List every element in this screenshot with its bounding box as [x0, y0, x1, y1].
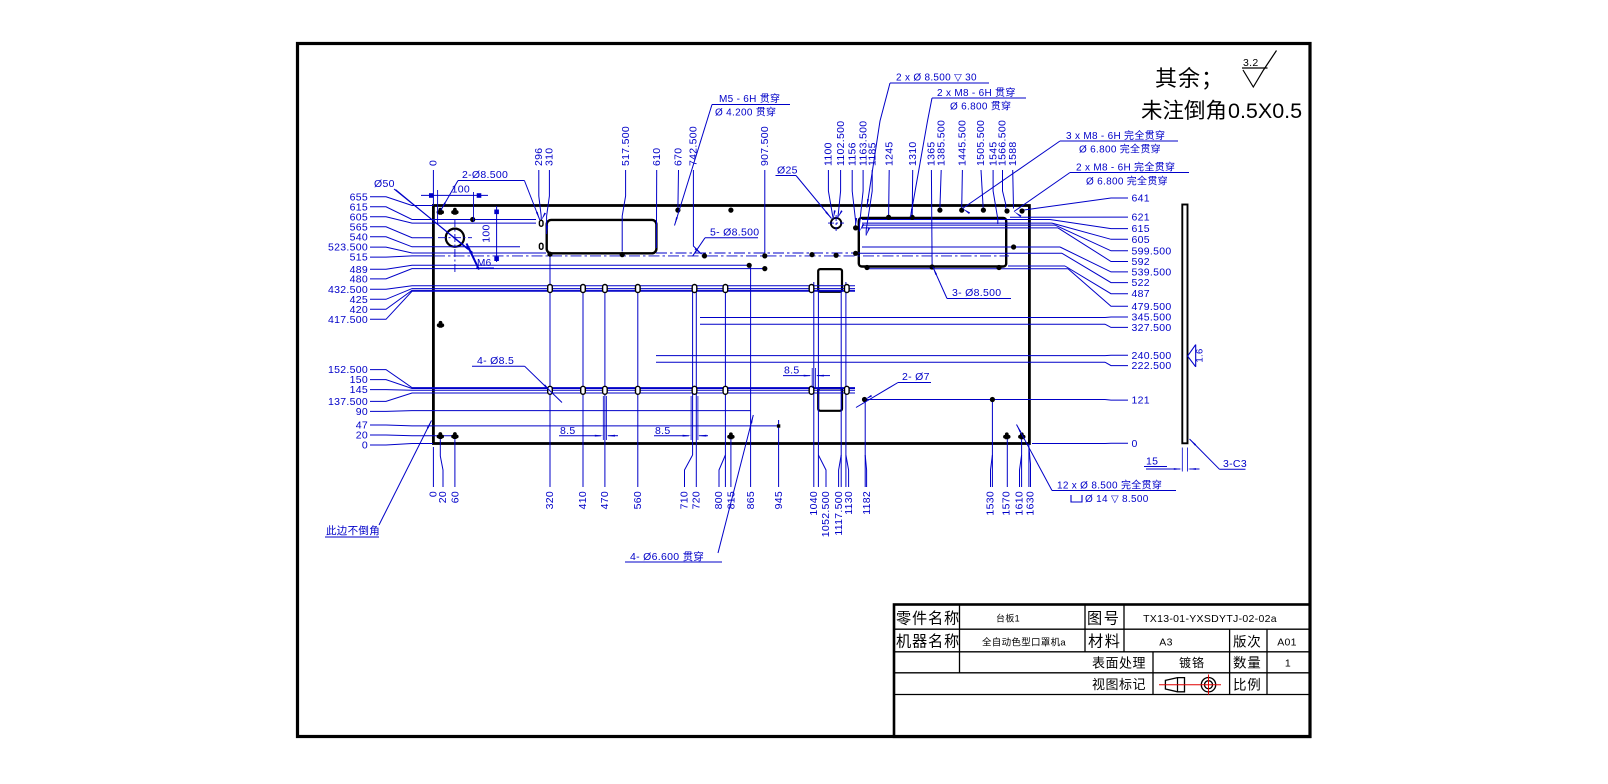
- svg-text:0.5X0.5: 0.5X0.5: [1228, 99, 1302, 123]
- left label 145: [350, 384, 433, 396]
- column x1117.5: [840, 292, 842, 487]
- right label 327.500: [1105, 322, 1172, 334]
- cutout right rounded rect: [859, 218, 1006, 267]
- row 137.5: [433, 392, 855, 394]
- left label 20: [356, 430, 433, 442]
- top label 310: [544, 148, 556, 234]
- svg-text:517.500: 517.500: [620, 126, 632, 166]
- svg-text:1102.500: 1102.500: [835, 121, 847, 166]
- svg-text:5- Ø8.500: 5- Ø8.500: [710, 227, 759, 239]
- centerline D25 cross: [828, 215, 844, 231]
- right label 479.500: [1068, 269, 1172, 313]
- dimension 15 side view: [1144, 448, 1200, 472]
- top label 296: [533, 148, 546, 221]
- left label 615: [350, 201, 433, 219]
- tapped holes (club marks): [437, 208, 1026, 439]
- svg-text:数量: 数量: [1233, 656, 1262, 671]
- top label 1102.500: [835, 121, 847, 218]
- svg-text:零件名称: 零件名称: [896, 611, 960, 628]
- column x1040: [813, 282, 815, 487]
- note 2-D8.500 leader2: [524, 181, 539, 221]
- bottom label 470: [599, 491, 611, 509]
- svg-text:4- Ø8.5: 4- Ø8.5: [477, 355, 514, 367]
- bottom label 0: [428, 447, 440, 497]
- row 345.5: [700, 317, 1105, 319]
- plate outline: [433, 206, 1029, 444]
- cutout left rounded rect: [547, 220, 657, 253]
- bottom label 865: [745, 491, 757, 509]
- row 240.5: [656, 355, 1105, 357]
- note 5-D8.500: [693, 227, 760, 257]
- outer border frame: [298, 44, 1311, 737]
- svg-text:605: 605: [1132, 234, 1150, 246]
- bottom label 720: [691, 491, 703, 509]
- title label 比例: [1233, 678, 1262, 693]
- bottom label 560: [632, 491, 644, 509]
- note M5 tap: [675, 92, 791, 226]
- svg-text:3 x M8 - 6H 完全贯穿: 3 x M8 - 6H 完全贯穿: [1066, 129, 1165, 142]
- surface finish symbol 3.2: [1242, 51, 1277, 88]
- svg-text:20: 20: [437, 491, 449, 503]
- top label 1505.500: [975, 120, 987, 209]
- svg-text:1: 1: [1285, 658, 1291, 670]
- top label 742.500: [688, 126, 702, 254]
- svg-text:版次: 版次: [1233, 635, 1262, 650]
- svg-text:1445.500: 1445.500: [957, 120, 969, 166]
- bottom label 710: [679, 455, 693, 509]
- right label 240.500: [1105, 350, 1172, 362]
- column x1630: [1028, 444, 1030, 488]
- column x800: [724, 286, 726, 487]
- hole circle D25: [831, 218, 841, 228]
- side view plate section: [1182, 205, 1187, 444]
- title label 数量: [1233, 656, 1262, 671]
- hole center dots: [470, 208, 1025, 403]
- top label 1545: [987, 141, 999, 224]
- left label 417.500: [328, 291, 433, 326]
- column x865: [750, 265, 752, 487]
- left label 152.500: [328, 364, 433, 388]
- column x410: [582, 286, 584, 487]
- dimension 100 vertical: [481, 206, 499, 262]
- svg-text:1.6: 1.6: [1195, 348, 1206, 362]
- svg-text:材料: 材料: [1088, 634, 1121, 651]
- row 121: [864, 399, 1105, 401]
- right label 641: [1024, 193, 1150, 211]
- bottom label 1182: [861, 455, 873, 515]
- left label 425: [350, 289, 433, 306]
- note 2-D7: [856, 371, 931, 408]
- row 417.5: [433, 290, 855, 292]
- svg-text:1310: 1310: [907, 141, 919, 166]
- right label 0: [1105, 438, 1138, 450]
- svg-text:未注倒角: 未注倒角: [1141, 99, 1227, 123]
- top label 610: [651, 148, 663, 248]
- note 2-D8.500: [441, 169, 525, 210]
- left label 489: [350, 264, 433, 276]
- svg-text:121: 121: [1132, 395, 1150, 407]
- note 其余: [1155, 66, 1224, 91]
- svg-text:Ø 6.800 贯穿: Ø 6.800 贯穿: [950, 100, 1011, 113]
- svg-text:8.5: 8.5: [655, 425, 671, 437]
- note 4-D8.5: [472, 355, 562, 403]
- dimension 8.5 slot x1040: [783, 365, 830, 388]
- note 12x D8.500: [1017, 425, 1177, 506]
- svg-text:3- Ø8.500: 3- Ø8.500: [952, 287, 1001, 299]
- left label 47: [356, 420, 433, 432]
- bottom label 60: [449, 439, 461, 503]
- dimension 100 horizontal: [421, 184, 488, 224]
- svg-text:90: 90: [356, 406, 368, 418]
- row 20: [433, 435, 458, 437]
- svg-text:145: 145: [350, 384, 368, 396]
- svg-text:Ø25: Ø25: [777, 165, 798, 177]
- svg-text:0: 0: [362, 440, 368, 452]
- svg-text:0: 0: [428, 160, 440, 166]
- top label 1310: [907, 141, 919, 216]
- svg-text:320: 320: [544, 491, 556, 509]
- svg-text:1100: 1100: [823, 142, 835, 166]
- right label 621: [1010, 212, 1150, 224]
- svg-text:720: 720: [691, 491, 703, 509]
- svg-text:镀铬: 镀铬: [1179, 655, 1205, 670]
- column x1182: [864, 400, 866, 488]
- svg-text:1040: 1040: [808, 491, 820, 516]
- title label 图号: [1087, 611, 1120, 628]
- dimension 8.5 slot x710: [654, 396, 708, 440]
- left label 150: [350, 374, 433, 388]
- svg-text:12 x Ø 8.500 完全贯穿: 12 x Ø 8.500 完全贯穿: [1057, 479, 1162, 492]
- row 432.5: [433, 285, 855, 287]
- svg-text:410: 410: [577, 491, 589, 509]
- top label 1156: [846, 142, 858, 226]
- left label 655: [350, 191, 433, 205]
- svg-text:台板1: 台板1: [996, 613, 1020, 624]
- svg-text:710: 710: [679, 491, 691, 509]
- svg-text:641: 641: [1132, 193, 1150, 205]
- note 3-C3: [1190, 439, 1247, 470]
- right label 121: [1105, 395, 1150, 407]
- top label 517.500: [620, 126, 632, 252]
- row 480: [433, 268, 765, 270]
- left label 540: [350, 231, 433, 247]
- svg-text:621: 621: [1132, 212, 1150, 224]
- note 4-D6.600: [625, 415, 753, 563]
- svg-text:1182: 1182: [861, 491, 873, 515]
- row 420: [433, 289, 855, 291]
- note 2xM8 full: [1014, 161, 1189, 218]
- title value A3: [1159, 637, 1172, 649]
- row 605: [433, 222, 1052, 224]
- bottom label 1630: [1025, 447, 1037, 516]
- bottom label 1040: [808, 491, 820, 516]
- note D50: [374, 178, 473, 252]
- column x1052.5: [817, 292, 819, 487]
- svg-text:515: 515: [350, 252, 368, 264]
- top label 670: [673, 148, 685, 209]
- svg-text:2 x M8 - 6H 贯穿: 2 x M8 - 6H 贯穿: [937, 86, 1016, 99]
- title value TX13-01-YXSDYTJ-02-02a: [1143, 613, 1277, 625]
- bottom label 1610: [1014, 455, 1026, 516]
- column x1570: [1006, 438, 1008, 487]
- left label 432.500: [328, 284, 433, 296]
- left label 565: [350, 221, 433, 237]
- svg-text:视图标记: 视图标记: [1092, 677, 1146, 692]
- right label 345.500: [1105, 312, 1172, 324]
- note 2xM8 through: [911, 86, 1027, 217]
- svg-text:8.5: 8.5: [784, 365, 800, 377]
- svg-text:327.500: 327.500: [1132, 322, 1172, 334]
- svg-text:470: 470: [599, 491, 611, 509]
- top label 0: [428, 160, 440, 206]
- right label 522: [1062, 253, 1150, 289]
- svg-text:其余；: 其余；: [1155, 66, 1224, 91]
- svg-text:Ø 6.800 完全贯穿: Ø 6.800 完全贯穿: [1086, 175, 1168, 188]
- column x945: [778, 420, 780, 487]
- right label 605: [1052, 223, 1150, 246]
- row 150: [433, 388, 855, 390]
- svg-text:800: 800: [713, 491, 725, 509]
- svg-text:0: 0: [1132, 438, 1138, 450]
- column x720: [695, 286, 697, 487]
- cutout small rect lower: [818, 388, 842, 411]
- svg-text:A3: A3: [1159, 637, 1172, 649]
- view mark target symbol: [1201, 678, 1215, 692]
- svg-text:全自动色型口罩机a: 全自动色型口罩机a: [982, 637, 1066, 649]
- left label 515: [350, 252, 433, 264]
- svg-text:Ø 6.800 完全贯穿: Ø 6.800 完全贯穿: [1079, 143, 1161, 156]
- title value 镀铬: [1179, 655, 1205, 670]
- column x1530: [991, 400, 993, 488]
- svg-text:2 x Ø 8.500 ▽ 30: 2 x Ø 8.500 ▽ 30: [896, 73, 977, 84]
- left label 420: [350, 290, 433, 315]
- svg-text:310: 310: [544, 148, 556, 166]
- column x560: [637, 286, 639, 487]
- right label 539.500: [1060, 247, 1172, 278]
- svg-text:1052.500: 1052.500: [820, 491, 832, 537]
- svg-text:1588: 1588: [1007, 141, 1019, 166]
- svg-text:Ø 4.200 贯穿: Ø 4.200 贯穿: [715, 106, 776, 119]
- bottom label 1052.500: [818, 455, 832, 537]
- svg-text:1630: 1630: [1025, 491, 1037, 516]
- row 592: [862, 227, 1058, 229]
- title block grid: [894, 605, 1310, 737]
- svg-text:60: 60: [449, 491, 461, 503]
- svg-text:A01: A01: [1277, 637, 1297, 649]
- bottom label 815: [726, 491, 738, 509]
- left label 137.500: [328, 393, 433, 408]
- row 487: [1008, 265, 1065, 267]
- svg-text:3-C3: 3-C3: [1223, 458, 1247, 470]
- centerline y523.5 dash-dot: [656, 252, 860, 254]
- title label 零件名称: [896, 611, 960, 628]
- row 222.5: [656, 361, 1105, 363]
- svg-text:560: 560: [632, 491, 644, 509]
- right label 487: [1065, 266, 1150, 300]
- top label 1365: [926, 141, 938, 264]
- column x710: [692, 286, 694, 455]
- svg-text:TX13-01-YXSDYTJ-02-02a: TX13-01-YXSDYTJ-02-02a: [1143, 613, 1277, 625]
- right label 615: [1050, 220, 1150, 236]
- svg-text:1245: 1245: [883, 141, 895, 166]
- title value A01: [1277, 637, 1297, 649]
- right label 222.500: [1105, 360, 1172, 372]
- left label 605: [350, 211, 433, 223]
- svg-text:670: 670: [673, 148, 685, 166]
- svg-text:1570: 1570: [1001, 491, 1013, 516]
- dimension 8.5 slot x470: [559, 396, 618, 440]
- row 327.5: [700, 323, 1105, 325]
- svg-text:487: 487: [1132, 288, 1150, 300]
- note 2xD8.5 depth30: [867, 73, 989, 208]
- title label 视图标记: [1092, 677, 1146, 692]
- svg-text:742.500: 742.500: [688, 126, 700, 166]
- bottom label 945: [773, 491, 785, 509]
- top label 1566.500: [997, 120, 1009, 209]
- bottom label 1130: [843, 455, 855, 515]
- svg-text:4- Ø6.600 贯穿: 4- Ø6.600 贯穿: [630, 550, 704, 563]
- svg-text:1530: 1530: [985, 491, 997, 516]
- top label 1163.500: [857, 121, 869, 232]
- svg-text:2- Ø7: 2- Ø7: [902, 371, 930, 383]
- centerline y515 dash-dot: [434, 255, 1009, 257]
- row 540: [433, 246, 520, 248]
- note 3xM8 full: [963, 129, 1179, 214]
- left label 523.500: [328, 242, 433, 254]
- title label 机器名称: [896, 634, 960, 651]
- note 未注倒角0.5X0.5: [1141, 99, 1302, 123]
- surface finish 1.6 side view: [1188, 345, 1206, 367]
- svg-text:222.500: 222.500: [1132, 360, 1172, 372]
- counterbore symbol: [1071, 495, 1082, 502]
- view mark cone symbol: [1165, 678, 1184, 692]
- left label 480: [350, 269, 433, 286]
- centerline D50 cross: [438, 219, 472, 273]
- bottom label 320: [544, 491, 556, 509]
- row 522: [860, 252, 1062, 254]
- row 599.5: [862, 224, 1055, 226]
- bottom label 800: [713, 455, 725, 509]
- slot holes left of cutout: [539, 220, 543, 249]
- top label 1245: [883, 141, 895, 216]
- svg-text:15: 15: [1146, 456, 1158, 468]
- note edge no chamfer: [325, 421, 432, 538]
- svg-text:3.2: 3.2: [1243, 57, 1259, 69]
- title label 版次: [1233, 635, 1262, 650]
- svg-text:1130: 1130: [843, 491, 855, 515]
- svg-text:Ø 14 ▽ 8.500: Ø 14 ▽ 8.500: [1085, 494, 1149, 505]
- column x1610: [1021, 438, 1023, 487]
- row 539.5: [862, 246, 1060, 248]
- bottom label 1570: [1001, 491, 1013, 516]
- right label 592: [1058, 228, 1150, 268]
- svg-text:100: 100: [481, 224, 493, 242]
- svg-text:机器名称: 机器名称: [896, 634, 960, 651]
- column x815: [730, 438, 732, 487]
- title value 台板1: [996, 613, 1020, 624]
- column x320: [549, 254, 551, 488]
- column x1130: [845, 282, 847, 487]
- column x470: [604, 286, 606, 487]
- note M6: [467, 244, 495, 270]
- cutout small rect upper: [818, 269, 842, 292]
- svg-text:2 x M8 - 6H 完全贯穿: 2 x M8 - 6H 完全贯穿: [1076, 161, 1175, 174]
- svg-text:945: 945: [773, 491, 785, 509]
- left label 0: [362, 440, 433, 452]
- right label 599.500: [1055, 225, 1172, 257]
- top label 1445.500: [957, 120, 969, 209]
- top label 1185: [866, 142, 878, 235]
- svg-text:此边不倒角: 此边不倒角: [326, 524, 380, 537]
- bottom label 20: [437, 439, 449, 503]
- title label 表面处理: [1092, 656, 1146, 671]
- svg-text:610: 610: [651, 148, 663, 166]
- slot holes upper row: [548, 285, 849, 293]
- row 489: [433, 264, 750, 266]
- bottom label 1530: [985, 455, 997, 516]
- bottom label 1117.500: [833, 455, 845, 536]
- top label 1385.500: [935, 120, 947, 209]
- svg-text:1385.500: 1385.500: [935, 120, 947, 166]
- hole circle D50: [446, 229, 464, 247]
- svg-text:1505.500: 1505.500: [975, 120, 987, 166]
- top label 907.500: [759, 126, 771, 253]
- svg-text:417.500: 417.500: [328, 314, 368, 326]
- row 479.5: [866, 268, 1068, 270]
- svg-text:2-Ø8.500: 2-Ø8.500: [462, 169, 508, 181]
- svg-text:表面处理: 表面处理: [1092, 656, 1146, 671]
- title label 材料: [1088, 634, 1121, 651]
- note D50 leader: [396, 190, 469, 250]
- title value 1: [1285, 658, 1291, 670]
- svg-text:100: 100: [452, 184, 470, 196]
- svg-text:比例: 比例: [1233, 678, 1262, 693]
- title value 全自动色型口罩机a: [982, 637, 1066, 649]
- svg-text:865: 865: [745, 491, 757, 509]
- row 145: [433, 389, 855, 391]
- hole square mark x945: [777, 424, 780, 427]
- view mark red centerlines: [1159, 675, 1221, 695]
- row 0 right: [1032, 443, 1105, 445]
- row 425: [433, 288, 855, 290]
- slot holes lower row: [548, 386, 849, 394]
- note D25: [776, 165, 832, 219]
- svg-text:图号: 图号: [1087, 611, 1120, 628]
- row 90: [433, 410, 751, 412]
- svg-text:M5 - 6H 贯穿: M5 - 6H 贯穿: [719, 92, 780, 105]
- bottom label 410: [577, 491, 589, 509]
- svg-text:M6: M6: [477, 258, 492, 269]
- row 523.5 left: [433, 252, 546, 254]
- svg-text:Ø50: Ø50: [374, 178, 395, 190]
- top label 1588: [1007, 141, 1019, 208]
- row 152.5: [433, 387, 855, 389]
- left label 90: [356, 406, 433, 418]
- svg-text:8.5: 8.5: [560, 425, 576, 437]
- top label 1100: [823, 142, 836, 219]
- note 3-D8.500: [933, 267, 1011, 299]
- svg-text:907.500: 907.500: [759, 126, 771, 166]
- row 615: [433, 219, 1050, 221]
- row 47: [433, 425, 779, 427]
